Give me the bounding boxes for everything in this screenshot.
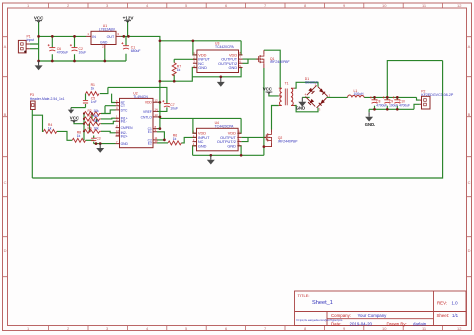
svg-text:VDD: VDD [145, 101, 153, 105]
wire U2 gnd rail [94, 143, 116, 145]
resistor R8 [72, 130, 85, 142]
svg-text:Header-Male-2.54_1x1: Header-Male-2.54_1x1 [30, 97, 65, 101]
wire U3 output to Q1 gate [243, 58, 259, 60]
IC U3 TC4420CPA [193, 50, 243, 73]
resistor R2 [84, 109, 101, 116]
wire U1 OUT rail [121, 36, 241, 40]
svg-text:GND: GND [198, 66, 207, 70]
wire P1 pins to vertical bus [30, 44, 39, 49]
ground under cluster [96, 144, 104, 153]
wire P2 pin1 jog [417, 97, 420, 100]
svg-text:1k: 1k [173, 137, 177, 141]
wire big loop top [387, 61, 442, 98]
svg-text:VDD: VDD [198, 132, 206, 136]
wire U4 vdd rail [160, 117, 241, 119]
svg-text:10uF: 10uF [79, 50, 87, 54]
wire U4 gnd right drop [237, 146, 241, 156]
svg-text:GND.: GND. [365, 122, 375, 127]
svg-text:GND: GND [296, 106, 305, 111]
wire P3 bus up [31, 110, 33, 179]
svg-text:VREF: VREF [143, 110, 152, 114]
svg-text:GND: GND [227, 144, 236, 148]
wire vref rail B [108, 87, 167, 103]
svg-text:GND: GND [100, 41, 108, 45]
wire main +12V vertical x160 [159, 41, 161, 129]
resistor R6 [168, 133, 181, 145]
svg-text:L7812ABV: L7812ABV [99, 28, 116, 32]
svg-text:Sheet:: Sheet: [437, 313, 450, 318]
svg-text:100uH: 100uH [354, 92, 365, 96]
wire U3 gnd right drop [192, 68, 241, 77]
wire output gnd drop [368, 109, 370, 112]
svg-text:C8: C8 [376, 100, 380, 104]
capacitor C6 [48, 44, 68, 54]
wire R7 top stub [173, 59, 175, 62]
wire T1 sec top to bridge top [295, 82, 319, 88]
svg-text:10: 10 [155, 139, 159, 143]
wire U4 output to Q2 gate [241, 136, 266, 138]
svg-text:Q2: Q2 [278, 136, 283, 140]
wire U2 E1 join C2 [157, 132, 164, 140]
wire T1 primary bottom to Q2 drain [272, 106, 279, 130]
wire U2 E2 to R6 [157, 142, 168, 144]
IC U2 TL494CN [116, 98, 159, 147]
svg-text:15: 15 [116, 132, 120, 136]
svg-text:1/1: 1/1 [452, 313, 459, 318]
svg-text:B: B [4, 112, 7, 117]
wire output caps bottom stubs [375, 106, 398, 110]
wire C3 bottom to gnd rail [93, 142, 95, 144]
wire C7 bottom to VREF pin [157, 107, 167, 111]
svg-text:10: 10 [382, 3, 387, 8]
svg-text:12: 12 [457, 326, 462, 331]
resistor R4 [43, 123, 56, 133]
border ticks left [3, 37, 8, 277]
svg-text:IRF2440PBF: IRF2440PBF [270, 60, 291, 64]
svg-text:Sheet_1: Sheet_1 [312, 300, 333, 306]
svg-text:OUTPUT/2: OUTPUT/2 [218, 62, 237, 66]
resistor R9 [84, 127, 101, 134]
svg-text:1nF: 1nF [91, 100, 97, 104]
wire big loop right and bottom [32, 61, 442, 178]
svg-text:GND: GND [198, 144, 207, 148]
svg-text:1.0: 1.0 [452, 301, 459, 306]
resistor R5 [84, 119, 101, 126]
svg-text:D: D [468, 248, 471, 253]
svg-text:10uF: 10uF [170, 107, 178, 111]
wire U3 output2 join [243, 59, 249, 63]
wire left vertical bus [38, 36, 40, 61]
ground near bridge [296, 97, 307, 110]
wire R4 to R8 jog [57, 131, 72, 140]
capacitor C9 [383, 96, 398, 107]
capacitor C7 [162, 100, 178, 110]
power flag +12V [123, 16, 135, 23]
capacitor C8 [370, 96, 387, 107]
svg-text:TC4420CPA: TC4420CPA [215, 45, 235, 49]
svg-text:2019-04-20: 2019-04-20 [350, 321, 373, 326]
wire VCC stem [38, 22, 40, 36]
svg-text:12: 12 [155, 99, 159, 103]
svg-text:VCC: VCC [263, 87, 273, 92]
svg-text:R5: R5 [88, 119, 92, 123]
wire Q1 drain up over to T1 [264, 50, 280, 88]
wire output bottom rail [369, 108, 414, 110]
svg-text:OUT: OUT [107, 35, 115, 39]
wire bridge right to L1 [326, 96, 347, 98]
svg-text:IN1-: IN1- [121, 120, 127, 124]
wire VCC centre tap [269, 94, 279, 96]
connector P2 [420, 96, 430, 109]
inductor L1 [348, 95, 365, 97]
svg-text:1k: 1k [91, 87, 95, 91]
title block texts [297, 293, 459, 326]
svg-text:VDD: VDD [229, 53, 237, 57]
svg-text:14: 14 [155, 108, 159, 112]
wire cluster vcc stem [74, 122, 84, 124]
svg-text:KF2EDGVC3.08-2P: KF2EDGVC3.08-2P [421, 93, 454, 97]
svg-text:TL494CN: TL494CN [133, 95, 148, 99]
svg-text:CT: CT [121, 104, 125, 108]
svg-text:C9: C9 [389, 100, 393, 104]
wire R6 to U4 input [181, 137, 196, 143]
power flag VCC cluster [70, 116, 80, 123]
svg-text:12: 12 [457, 3, 462, 8]
svg-text:R9: R9 [88, 127, 92, 131]
wire U4 gnd rail [193, 154, 264, 156]
wire top rail to U1 IN [39, 35, 86, 37]
connector P3 [31, 101, 35, 110]
svg-text:REV:: REV: [437, 301, 447, 306]
wire +12V stem [127, 21, 129, 37]
svg-text:+12V: +12V [123, 16, 135, 21]
svg-text:GBU610: GBU610 [305, 81, 318, 85]
power flag VCC top-left [34, 15, 44, 22]
svg-text:13: 13 [155, 113, 159, 117]
svg-text:C10: C10 [399, 100, 405, 104]
wire R8 to cluster [86, 139, 94, 141]
wire U3 VDD drops [193, 41, 241, 55]
wire C1 stubs [125, 36, 127, 61]
wire bottom left rail [39, 60, 126, 62]
wire U4 output2 join [241, 137, 248, 141]
svg-text:IN2+: IN2+ [121, 134, 128, 138]
IC U4 TC4420CPA [193, 128, 242, 151]
svg-text:680uF: 680uF [131, 49, 141, 53]
svg-text:1k: 1k [48, 126, 52, 130]
ground under U3 [217, 78, 225, 87]
svg-text:P3: P3 [30, 93, 34, 97]
svg-text:10k: 10k [94, 119, 100, 123]
svg-text:10: 10 [382, 326, 387, 331]
capacitor C5 [83, 96, 97, 103]
transformer T1 [279, 88, 295, 105]
wire R1 left drop [85, 94, 87, 101]
wire Q1 source long vertical [263, 68, 265, 147]
border ticks bottom [49, 326, 443, 331]
svg-text:Company:: Company: [331, 313, 351, 318]
svg-text:INPUT: INPUT [198, 136, 210, 140]
svg-text:GND: GND [121, 142, 129, 146]
svg-text:darlain: darlain [413, 321, 427, 326]
border ticks right [467, 37, 472, 277]
svg-text:VDD: VDD [228, 132, 236, 136]
connector P1 [18, 40, 29, 53]
svg-text:Drawn By:: Drawn By: [387, 321, 407, 326]
svg-text:Your Company: Your Company [358, 313, 388, 318]
svg-text:A: A [468, 44, 471, 49]
wire R1 right connector [100, 87, 108, 93]
svg-text:4700uF: 4700uF [57, 50, 68, 54]
svg-text:VCC: VCC [70, 116, 80, 121]
svg-text:T1: T1 [285, 82, 289, 86]
svg-text:TITLE:: TITLE: [298, 293, 310, 298]
svg-text:IRF2440PBF: IRF2440PBF [278, 140, 299, 144]
svg-text:1k: 1k [177, 68, 181, 72]
svg-text:E2: E2 [148, 141, 152, 145]
svg-text:TC4420CPA: TC4420CPA [215, 125, 235, 129]
svg-text:INPUT: INPUT [198, 58, 210, 62]
wire U1 GND drop [104, 49, 106, 62]
wire rows left connectors [84, 114, 97, 141]
svg-text:CMPEN: CMPEN [121, 126, 134, 130]
svg-text:GND: GND [229, 66, 238, 70]
svg-text:C3: C3 [97, 136, 101, 140]
wire rail under R7 [160, 68, 197, 82]
svg-text:OUTPUT: OUTPUT [220, 136, 236, 140]
capacitor C1 [121, 42, 140, 53]
svg-text:VCC: VCC [34, 15, 44, 20]
diode bridge D1 [305, 83, 331, 112]
svg-text:D: D [4, 248, 7, 253]
svg-text:1k: 1k [77, 134, 81, 138]
svg-text:R2: R2 [88, 109, 92, 113]
svg-text:DTC: DTC [121, 108, 128, 112]
svg-text:VDD: VDD [198, 53, 206, 57]
wire R7 bottom to rail [173, 75, 175, 82]
wire U3 input from R7 [174, 58, 197, 60]
svg-text:B: B [468, 112, 471, 117]
wire C5 bottom stub [85, 104, 87, 108]
resistor R1 [86, 83, 99, 95]
svg-text:OUTPUT/2: OUTPUT/2 [217, 140, 236, 144]
svg-text:10k: 10k [94, 109, 100, 113]
svg-text:Date:: Date: [331, 321, 342, 326]
svg-text:C: C [4, 180, 7, 185]
wire bridge left to gnd [302, 96, 309, 98]
wire C2 stubs [74, 36, 76, 61]
wire rows right connectors [101, 110, 116, 133]
svg-text:OUTPUT: OUTPUT [221, 58, 237, 62]
wire T1 sec bottom to bridge bottom [295, 106, 319, 112]
capacitor C3 [91, 136, 101, 140]
wire P2 pin2 jog [414, 104, 420, 109]
svg-text:R3: R3 [88, 114, 92, 118]
svg-text:E1: E1 [148, 130, 152, 134]
svg-text:100uF: 100uF [389, 104, 398, 108]
wire U2 C1 to x160 [157, 128, 160, 130]
ground output [365, 112, 375, 127]
resistor R3 [84, 114, 101, 121]
capacitor C10 [393, 96, 410, 107]
wire cluster left gnd row [71, 107, 86, 109]
ground cluster left [68, 108, 74, 114]
svg-text:10k: 10k [94, 127, 100, 131]
capacitor C2 [70, 44, 86, 54]
wire U2 vdd pin12 [158, 101, 160, 103]
resistor R7 [172, 63, 181, 76]
ground under P1 [35, 61, 43, 70]
wire C3 top stub [93, 136, 95, 139]
svg-text:4700uF: 4700uF [399, 104, 410, 108]
svg-text:NC: NC [198, 62, 204, 66]
wire U4 gnd left drop [193, 146, 197, 156]
svg-text:A: A [4, 44, 7, 49]
wire Q2 source join [263, 147, 265, 156]
svg-text:C: C [468, 180, 471, 185]
wire C6 stubs [51, 36, 53, 61]
regulator U1 [86, 31, 121, 48]
svg-text:Input: Input [27, 38, 35, 42]
wire P3 branch to R4 [32, 115, 43, 131]
wire rt ct feeds [105, 94, 116, 114]
svg-text:4700uF: 4700uF [376, 104, 387, 108]
wire U2 pin13 [158, 116, 160, 118]
title block [295, 291, 467, 326]
power flag VCC mid [263, 87, 273, 94]
border ticks top [49, 3, 443, 8]
ground under U4 [207, 155, 215, 164]
wire L1 to caps rail [364, 96, 416, 98]
wire U4 vdd drops [193, 118, 241, 133]
svg-text:IN: IN [92, 35, 96, 39]
wire output caps top stubs [375, 97, 398, 99]
svg-text:CNTLO: CNTLO [141, 115, 153, 119]
transistor Q1 [256, 50, 264, 68]
svg-text:NC: NC [198, 140, 204, 144]
transistor Q2 [264, 130, 272, 147]
svg-text:5k1: 5k1 [94, 114, 99, 118]
